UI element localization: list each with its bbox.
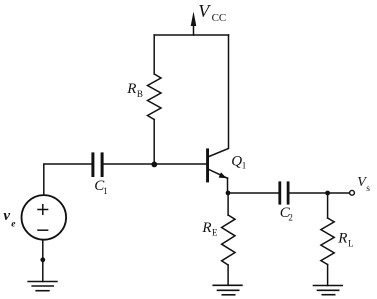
label RB	[126, 81, 143, 99]
svg-text:v: v	[3, 208, 10, 224]
resistor RE	[222, 193, 235, 285]
svg-text:1: 1	[242, 161, 247, 171]
label C2	[280, 205, 293, 222]
svg-text:1: 1	[103, 186, 108, 196]
wire C2 to output	[290, 192, 350, 194]
svg-text:B: B	[137, 89, 143, 99]
svg-text:L: L	[348, 238, 354, 248]
transistor Q1	[206, 35, 228, 193]
svg-text:Q: Q	[231, 153, 242, 169]
ground (middle, under RE)	[213, 285, 242, 295]
svg-text:s: s	[366, 184, 370, 194]
ground (right, under RL)	[314, 286, 343, 295]
label VCC	[198, 1, 226, 24]
label Q1	[231, 153, 246, 170]
wire source top to C1	[44, 164, 92, 195]
node at base junction	[151, 162, 157, 168]
svg-text:2: 2	[288, 213, 293, 223]
resistor RL	[321, 193, 334, 286]
svg-text:CC: CC	[212, 12, 227, 24]
wire top rail VCC	[154, 34, 228, 36]
label C1	[94, 178, 108, 196]
label Vs	[357, 175, 370, 194]
capacitor C2	[278, 181, 289, 204]
wire source bottom to ground	[42, 240, 44, 282]
capacitor C1	[91, 152, 103, 177]
label ve	[3, 208, 16, 229]
power VCC symbol (arrow)	[191, 12, 197, 36]
wire emitter node to C2	[228, 192, 278, 194]
label RL	[337, 231, 353, 249]
node at RL junction	[325, 191, 330, 196]
junction dot below source	[40, 257, 45, 262]
ground (left, under ve)	[28, 282, 57, 291]
node at emitter junction	[226, 191, 231, 196]
voltage source ve	[22, 195, 67, 240]
wire C1 to base node	[104, 163, 207, 165]
svg-text:E: E	[212, 228, 218, 238]
svg-text:R: R	[201, 220, 211, 236]
svg-text:R: R	[337, 231, 347, 247]
label RE	[201, 220, 218, 238]
output terminal Vs (open circle)	[350, 190, 355, 195]
resistor RB	[148, 35, 162, 164]
svg-text:R: R	[126, 81, 136, 97]
